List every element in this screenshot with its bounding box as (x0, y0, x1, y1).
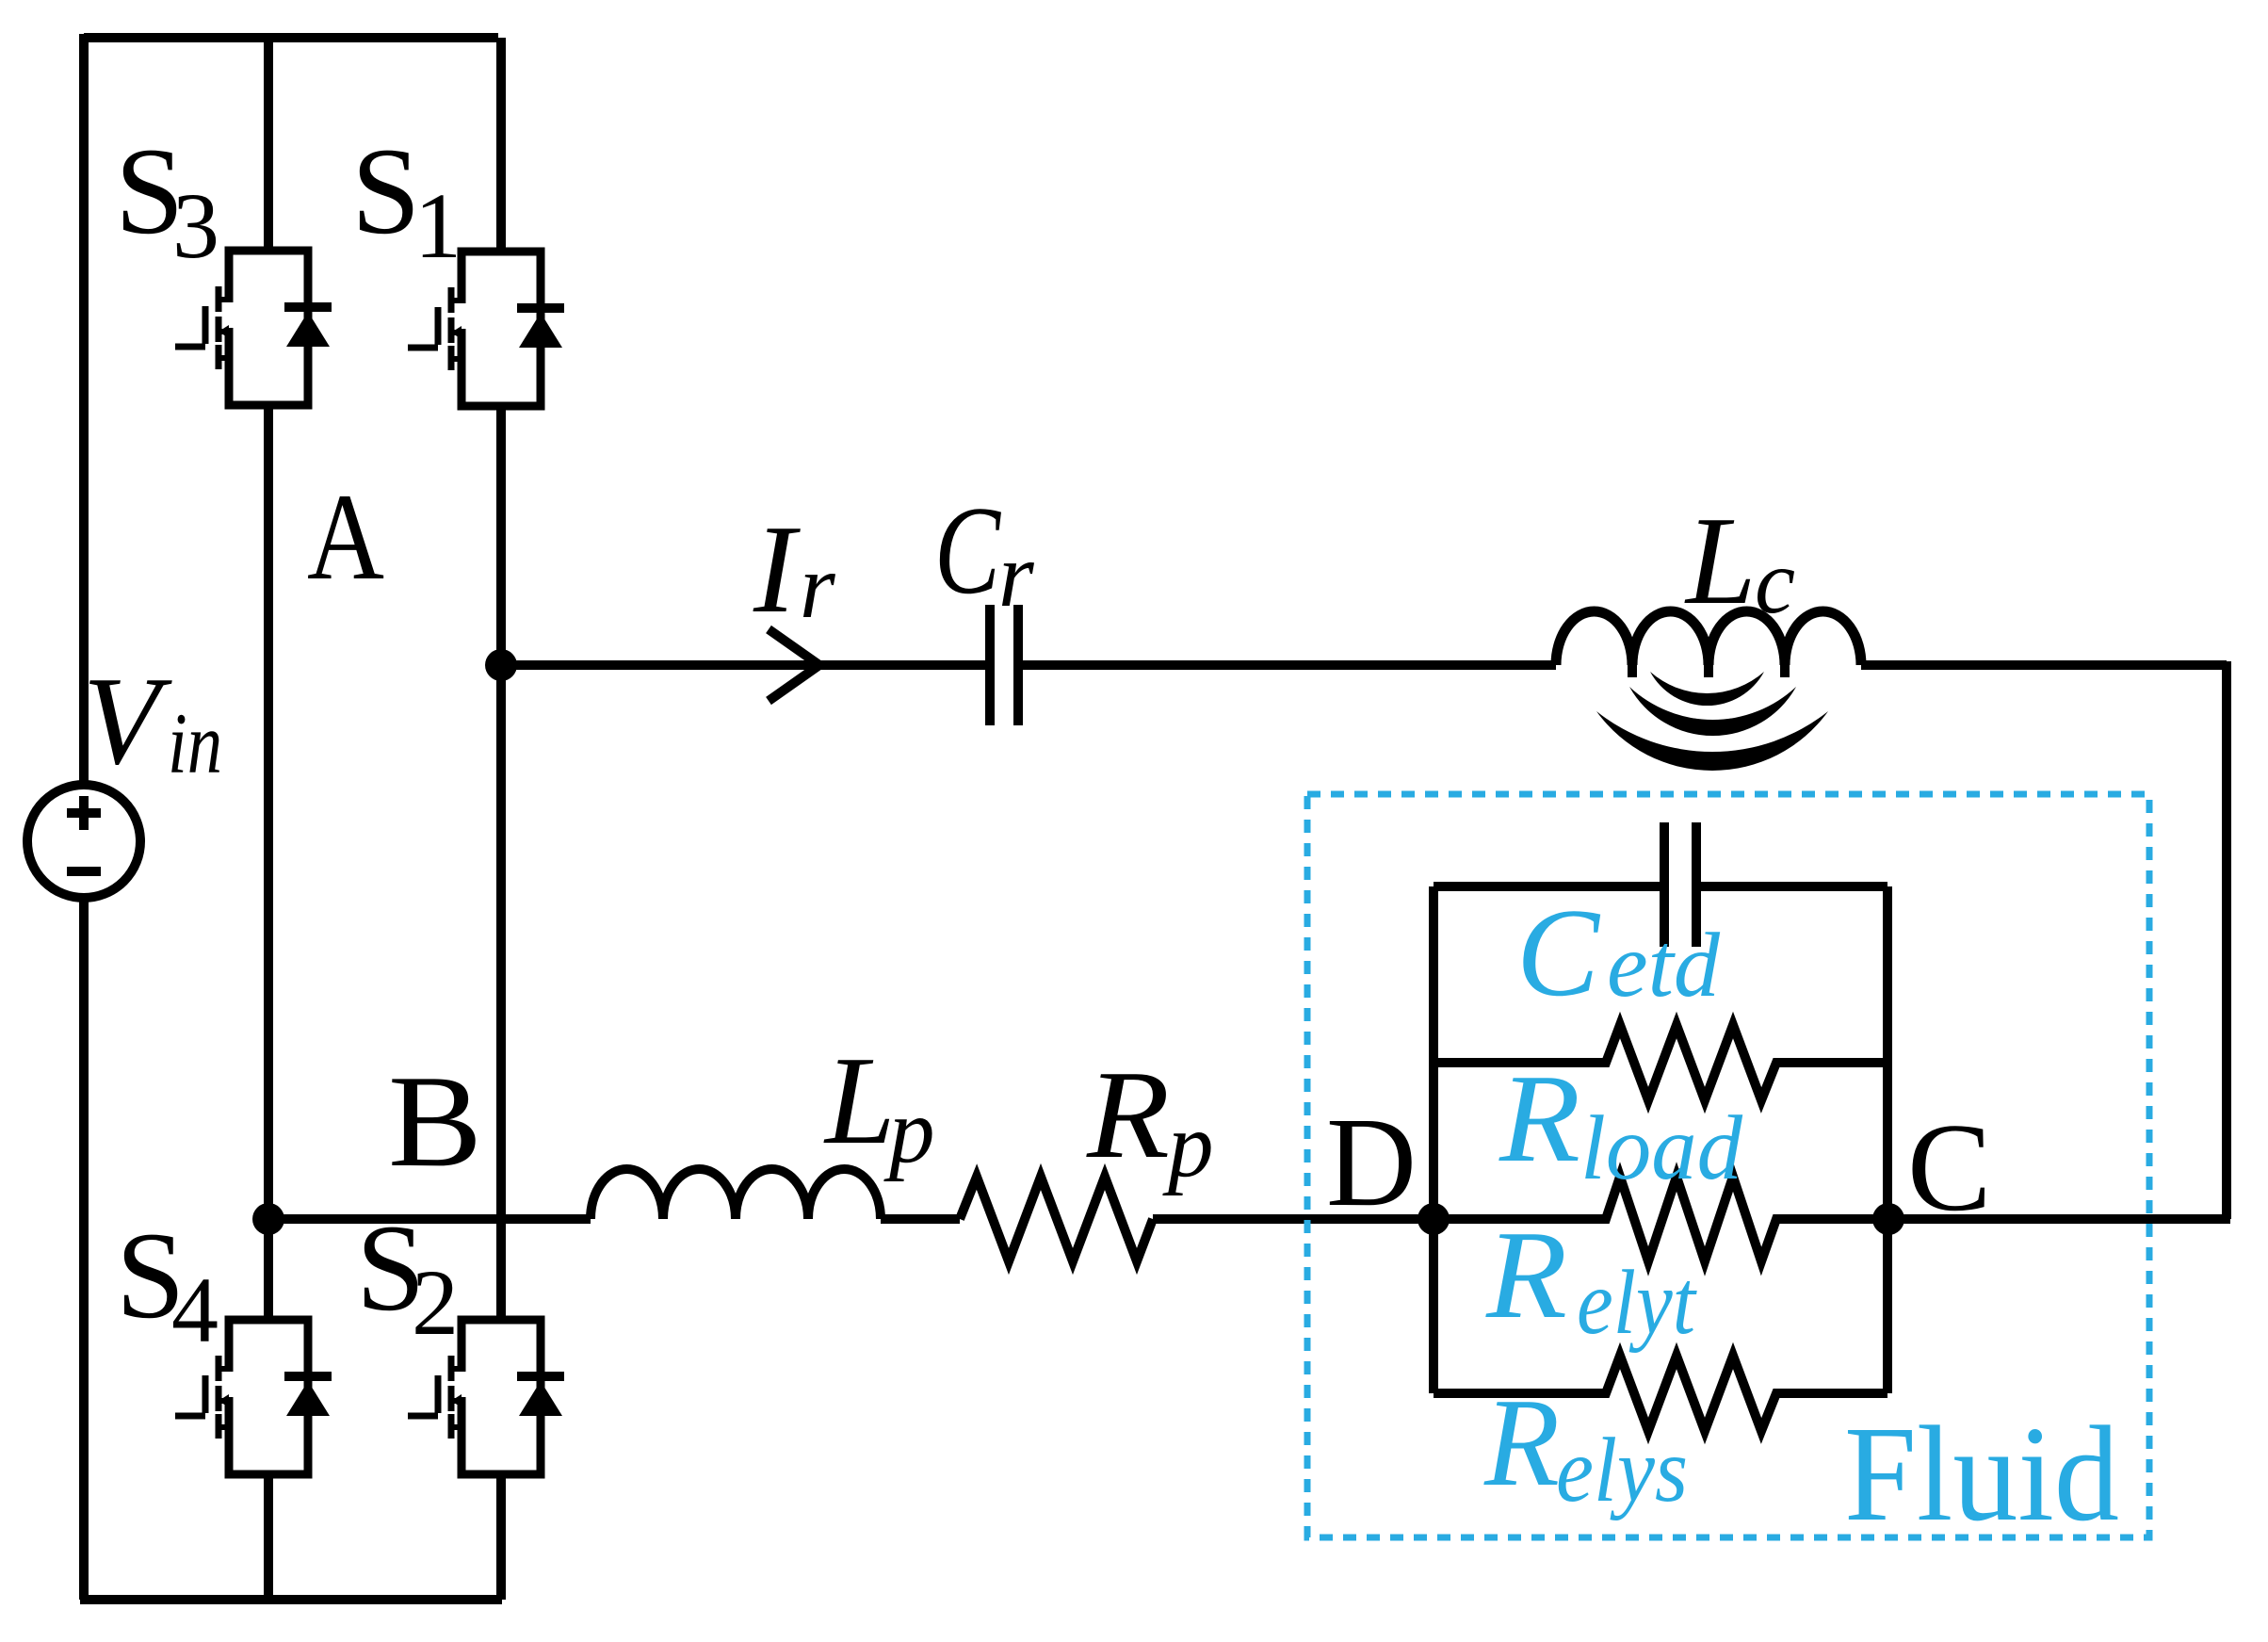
svg-text:Fluid: Fluid (1844, 1399, 2119, 1550)
Lc coupling arc middle (1629, 687, 1796, 736)
wire right vertical (2222, 661, 2231, 1219)
wire left outer bottom (79, 898, 89, 1600)
svg-text:D: D (1326, 1092, 1417, 1233)
svg-text:p: p (1162, 1095, 1214, 1195)
Lc coupling arc outer (1596, 711, 1828, 771)
transistor S3 (175, 251, 332, 405)
wire Lp to Rp (881, 1214, 960, 1224)
svg-text:load: load (1580, 1097, 1742, 1198)
wire leg S1-to-A (496, 406, 506, 665)
svg-text:C: C (1907, 1097, 1991, 1237)
svg-text:4: 4 (171, 1258, 219, 1362)
wire left outer top (79, 34, 89, 785)
Lc coupling arc inner (1650, 672, 1764, 706)
wire leg B-to-S4 (264, 1219, 273, 1320)
svg-text:1: 1 (414, 173, 462, 278)
svg-text:R: R (1483, 1373, 1560, 1512)
wire leg S2 lower (496, 1473, 506, 1600)
svg-text:2: 2 (412, 1250, 459, 1355)
resistor Rload branch (1434, 1025, 1887, 1100)
wire node B to Lp (268, 1214, 591, 1224)
resistor Rp (960, 1177, 1153, 1261)
wire bottom rail (80, 1595, 502, 1604)
svg-text:etd: etd (1607, 915, 1720, 1016)
svg-text:R: R (1485, 1205, 1567, 1344)
svg-text:r: r (998, 525, 1035, 626)
dashed Fluid boundary box (1307, 794, 2149, 1537)
fluid network box right edge (1883, 886, 1892, 1393)
svg-text:c: c (1755, 531, 1795, 632)
svg-text:r: r (800, 536, 836, 637)
transistor S2 (408, 1320, 564, 1474)
node D (1417, 1203, 1450, 1235)
wire node A to Cr (501, 660, 985, 670)
svg-text:I: I (753, 499, 801, 639)
capacitor Cr (990, 605, 1018, 725)
svg-text:A: A (307, 467, 384, 606)
svg-text:L: L (1684, 491, 1757, 630)
svg-text:in: in (168, 695, 222, 791)
capacitor Cetd (1664, 822, 1696, 947)
svg-text:3: 3 (172, 173, 219, 278)
wire Cr to Lc (1023, 660, 1556, 670)
inductor Lp (591, 1169, 881, 1219)
wire Rp to node D (1153, 1214, 1434, 1224)
node A (485, 649, 517, 681)
svg-text:R: R (1086, 1045, 1170, 1184)
wire leg S1 upper (496, 38, 506, 252)
resistor Relys bottom branch (1434, 1356, 1887, 1431)
svg-text:S: S (351, 122, 420, 260)
coil cusp ticks (1632, 665, 1785, 677)
svg-text:elys: elys (1556, 1420, 1688, 1520)
transistor S1 (408, 252, 564, 406)
wire leg S3 upper (264, 38, 273, 251)
svg-text:L: L (823, 1031, 896, 1170)
transistor S4 (175, 1320, 332, 1474)
wire leg A-to-S2 (496, 665, 506, 1320)
svg-text:C: C (1516, 883, 1601, 1022)
svg-text:B: B (388, 1049, 482, 1195)
wire leg S4 lower (264, 1473, 273, 1600)
voltage source Vin (27, 785, 140, 898)
svg-text:p: p (883, 1081, 935, 1181)
fluid network box top edge with Cetd gap (1434, 882, 1887, 891)
fluid network box left edge (1429, 886, 1438, 1393)
resistor Relyt on main wire (1434, 1177, 1887, 1261)
svg-text:elyt: elyt (1577, 1252, 1697, 1353)
wire Lc to right corner (1861, 660, 2227, 670)
node C (1872, 1203, 1904, 1235)
inductor Lc (1556, 611, 1861, 665)
svg-text:V: V (83, 651, 172, 790)
current arrow Ir (769, 629, 819, 701)
wire leg S3-to-B (264, 405, 273, 1219)
wire top rail (84, 33, 498, 42)
node B (252, 1203, 284, 1235)
wire C to right corner (1888, 1214, 2230, 1224)
svg-text:C: C (934, 480, 1001, 620)
svg-text:R: R (1498, 1049, 1580, 1188)
